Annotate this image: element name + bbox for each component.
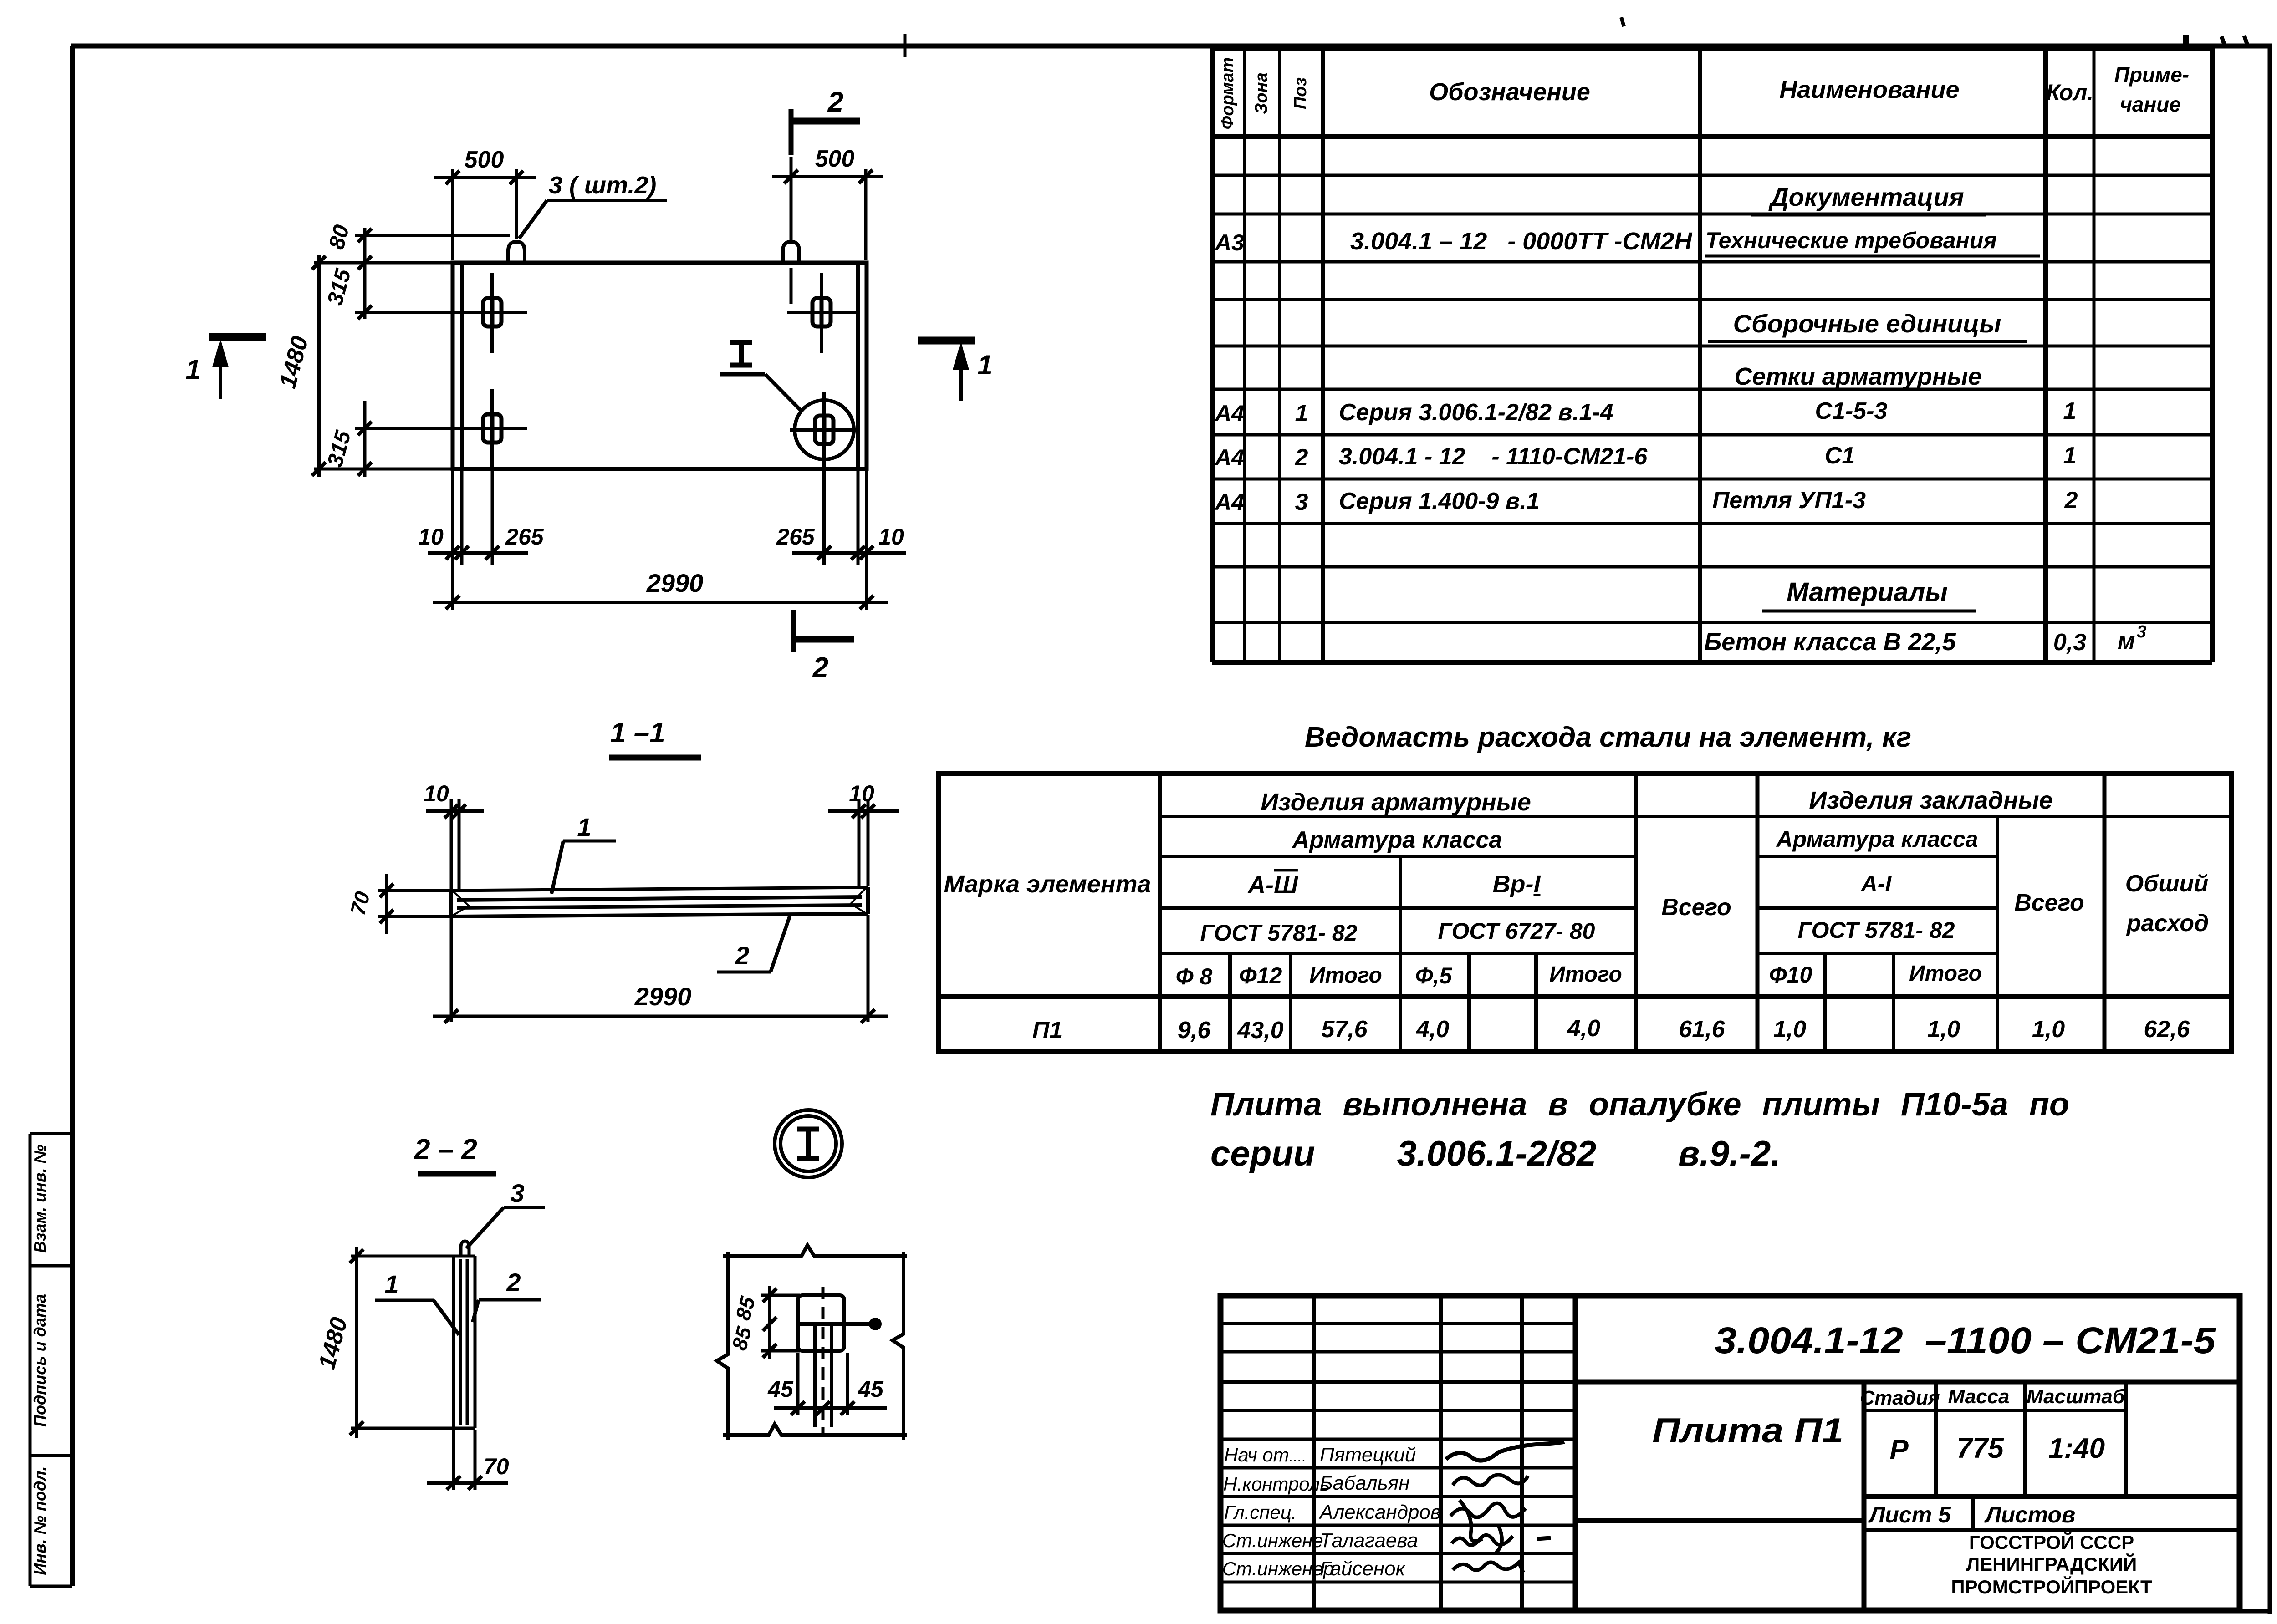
dim 10 right section <box>828 781 899 818</box>
steel table title <box>1305 722 1911 753</box>
svg-text:10: 10 <box>418 524 444 550</box>
svg-text:Вр-I: Вр-I <box>1493 871 1541 898</box>
spec row 3 <box>1214 487 2078 515</box>
svg-text:3: 3 <box>510 1179 524 1207</box>
svg-text:1: 1 <box>2063 398 2077 424</box>
svg-text:П1: П1 <box>1032 1017 1062 1044</box>
title block signatures column labels <box>1222 1444 1334 1579</box>
svg-text:265: 265 <box>505 524 544 550</box>
svg-text:Серия 1.400-9 в.1: Серия 1.400-9 в.1 <box>1339 488 1540 514</box>
svg-text:1: 1 <box>1295 400 1308 427</box>
circled I symbol <box>775 1110 842 1177</box>
label 3 section 2-2 <box>466 1179 545 1248</box>
svg-text:Документация: Документация <box>1768 183 1964 211</box>
svg-text:Гл.спец.: Гл.спец. <box>1224 1502 1297 1523</box>
svg-text:А4: А4 <box>1214 489 1244 515</box>
svg-text:Ф12: Ф12 <box>1239 963 1282 988</box>
svg-text:Сборочные единицы: Сборочные единицы <box>1733 309 2001 338</box>
svg-text:А4: А4 <box>1214 401 1244 426</box>
detail I dims 85 85 <box>727 1286 800 1359</box>
svg-text:Взам. инв. №: Взам. инв. № <box>31 1145 49 1253</box>
svg-text:2: 2 <box>2064 487 2078 514</box>
svg-text:Подпись и дата: Подпись и дата <box>31 1294 49 1427</box>
svg-text:80: 80 <box>325 222 354 252</box>
section 2-2 slab <box>454 1256 475 1428</box>
svg-text:1: 1 <box>384 1270 398 1298</box>
svg-text:85: 85 <box>731 1293 760 1323</box>
svg-text:Изделия арматурные: Изделия арматурные <box>1261 789 1531 816</box>
dim 70 section 1-1 <box>346 874 453 934</box>
svg-text:1480: 1480 <box>275 333 314 391</box>
svg-text:Масштаб: Масштаб <box>2027 1385 2126 1408</box>
label 1 section 2-2 <box>375 1270 459 1335</box>
svg-text:Масса: Масса <box>1948 1385 2009 1408</box>
svg-text:Всего: Всего <box>1661 894 1731 921</box>
svg-text:315: 315 <box>323 266 356 308</box>
dim 500 top-right <box>772 146 883 260</box>
title block name: Плита П1 <box>1575 1411 1864 1521</box>
svg-text:265: 265 <box>776 524 815 550</box>
svg-text:Плита выполнена в опалубке пл: Плита выполнена в опалубке плиты П10-5а … <box>1210 1086 2069 1123</box>
svg-text:1,0: 1,0 <box>1773 1016 1806 1043</box>
svg-text:1: 1 <box>977 350 992 380</box>
svg-text:Арматура класса: Арматура класса <box>1776 826 1978 852</box>
spec row Сборочные единицы <box>1708 309 2027 341</box>
svg-text:Александров: Александров <box>1318 1501 1441 1523</box>
svg-text:1: 1 <box>185 354 200 385</box>
svg-text:62,6: 62,6 <box>2144 1016 2190 1043</box>
svg-text:ГОСТ 6727- 80: ГОСТ 6727- 80 <box>1438 918 1595 944</box>
label 3 (шт.2) with leader <box>519 172 667 239</box>
svg-text:Н.контроль: Н.контроль <box>1223 1473 1330 1495</box>
svg-text:1,0: 1,0 <box>1927 1016 1960 1043</box>
svg-text:Бабальян: Бабальян <box>1320 1472 1410 1494</box>
spec row Бетон <box>1704 622 2146 656</box>
title block organization <box>1951 1531 2152 1598</box>
svg-text:Формат: Формат <box>1218 57 1237 130</box>
svg-text:Технические требования: Технические требования <box>1705 228 1997 253</box>
svg-text:Обозначение: Обозначение <box>1429 78 1590 106</box>
svg-text:2 – 2: 2 – 2 <box>414 1134 477 1165</box>
svg-text:Плита П1: Плита П1 <box>1652 1411 1843 1450</box>
svg-text:Ф10: Ф10 <box>1769 962 1812 988</box>
svg-text:Талагаева: Талагаева <box>1320 1529 1418 1552</box>
svg-text:А-I: А-I <box>1860 871 1892 896</box>
section mark 1 right <box>918 341 993 401</box>
title block outer frame <box>1220 1296 2240 1610</box>
svg-text:Р: Р <box>1889 1434 1909 1466</box>
svg-text:1480: 1480 <box>314 1314 353 1372</box>
left margin stamp boxes <box>30 1134 72 1586</box>
dim 2990 plan <box>433 565 888 610</box>
spec row Материалы <box>1762 577 1976 611</box>
svg-text:0,3: 0,3 <box>2053 629 2086 656</box>
dim 1480 section 2-2 <box>314 1247 455 1438</box>
svg-text:315: 315 <box>323 428 356 469</box>
svg-text:Зона: Зона <box>1252 72 1271 114</box>
svg-text:Всего: Всего <box>2014 890 2084 916</box>
section 1-1 extension lines <box>451 799 868 1022</box>
svg-text:Итого: Итого <box>1309 963 1382 988</box>
svg-text:2: 2 <box>827 87 843 118</box>
svg-text:2990: 2990 <box>634 982 692 1011</box>
svg-text:Петля УП1-3: Петля УП1-3 <box>1712 487 1866 514</box>
section 1-1 slab <box>451 887 868 916</box>
svg-text:1: 1 <box>577 813 591 841</box>
steel table header texts <box>944 787 2209 989</box>
svg-text:Приме-: Приме- <box>2114 63 2189 87</box>
dim 1480 <box>275 255 454 477</box>
label 1 section 1-1 <box>551 813 616 894</box>
svg-text:3.004.1 – 12 - 0000ТТ -СМ2Н: 3.004.1 – 12 - 0000ТТ -СМ2Н <box>1350 228 1692 255</box>
svg-text:43,0: 43,0 <box>1237 1017 1283 1044</box>
svg-text:Бетон класса В 22,5: Бетон класса В 22,5 <box>1704 628 1956 656</box>
svg-text:61,6: 61,6 <box>1679 1016 1725 1043</box>
svg-text:ГОСТ 5781- 82: ГОСТ 5781- 82 <box>1200 920 1358 946</box>
svg-text:70: 70 <box>346 889 375 917</box>
dim 2990 section 1-1 <box>433 982 888 1023</box>
detail I break-line square <box>717 1245 907 1440</box>
svg-text:1: 1 <box>2063 443 2077 469</box>
label 2 section 1-1 <box>717 915 790 972</box>
svg-text:3.004.1-12 –1100 – СМ21-5: 3.004.1-12 –1100 – СМ21-5 <box>1715 1320 2216 1361</box>
detail I embed part <box>798 1287 882 1434</box>
svg-text:10: 10 <box>849 781 874 806</box>
section mark 1 left <box>185 337 266 399</box>
svg-text:Ф 8: Ф 8 <box>1176 964 1213 989</box>
loop stub on top of section 2-2 <box>461 1241 469 1256</box>
svg-text:Поз: Поз <box>1291 77 1310 109</box>
svg-text:Нач от....: Нач от.... <box>1224 1444 1306 1466</box>
spec row 1 <box>1214 398 2076 427</box>
svg-text:Наименование: Наименование <box>1779 76 1959 103</box>
svg-text:70: 70 <box>484 1454 509 1479</box>
svg-text:45: 45 <box>767 1376 794 1402</box>
signature scribbles <box>1446 1442 1564 1573</box>
svg-text:500: 500 <box>465 147 504 173</box>
svg-text:Листов: Листов <box>1984 1502 2075 1527</box>
svg-text:Серия 3.006.1-2/82 в.1-4: Серия 3.006.1-2/82 в.1-4 <box>1339 399 1613 426</box>
steel table grid <box>939 774 2231 1052</box>
svg-text:3: 3 <box>2137 622 2146 641</box>
spec row A3 <box>1214 228 2040 256</box>
section 2 cut line through loop2 <box>790 157 793 304</box>
svg-text:2: 2 <box>735 941 749 970</box>
detail I dims 45 45 <box>767 1353 887 1415</box>
svg-text:Гайсенок: Гайсенок <box>1320 1558 1406 1580</box>
bottom dims 10,265 left <box>418 469 544 565</box>
svg-text:3: 3 <box>1295 489 1308 515</box>
lifting loop 3 left <box>508 242 525 265</box>
svg-text:Ведомасть расхода стали на эле: Ведомасть расхода стали на элемент, кг <box>1305 722 1911 753</box>
svg-text:Лист 5: Лист 5 <box>1868 1502 1951 1527</box>
spec row 2 <box>1214 443 2076 471</box>
title block sheet row <box>1864 1497 2240 1530</box>
label 2 section 2-2 <box>473 1268 541 1322</box>
lifting loop 3 right <box>783 242 799 265</box>
svg-text:1 –1: 1 –1 <box>610 717 665 748</box>
section mark 2 bottom <box>794 610 854 683</box>
svg-text:Материалы: Материалы <box>1787 577 1948 607</box>
svg-text:Инв. № подл.: Инв. № подл. <box>31 1466 49 1575</box>
embed plate upper-right <box>787 273 858 353</box>
svg-text:4,0: 4,0 <box>1416 1016 1449 1043</box>
dim 70 section 2-2 <box>427 1430 509 1490</box>
svg-text:Марка элемента: Марка элемента <box>944 871 1151 898</box>
svg-text:Стадия: Стадия <box>1860 1387 1940 1409</box>
svg-text:2: 2 <box>1295 444 1308 471</box>
dim 80 left <box>325 222 510 319</box>
svg-text:2990: 2990 <box>646 569 704 597</box>
spec row Документация <box>1751 183 1986 215</box>
svg-text:А4: А4 <box>1214 445 1244 470</box>
section 1-1 title <box>609 717 701 758</box>
svg-text:Пятецкий: Пятецкий <box>1320 1444 1416 1466</box>
plate outline plan <box>453 263 867 469</box>
title block signature names <box>1318 1444 1441 1580</box>
dim 500 top-left <box>434 147 536 260</box>
svg-text:10: 10 <box>878 524 904 550</box>
dim 315 lower <box>323 401 460 477</box>
svg-text:Арматура класса: Арматура класса <box>1292 827 1502 853</box>
svg-text:45: 45 <box>858 1376 884 1402</box>
title block name grid <box>1220 1296 1575 1610</box>
svg-text:Ф,5: Ф,5 <box>1415 963 1453 988</box>
svg-text:Ст.инжене.: Ст.инжене. <box>1222 1530 1328 1551</box>
svg-text:85: 85 <box>727 1324 756 1353</box>
svg-text:А3: А3 <box>1214 230 1244 255</box>
svg-text:9,6: 9,6 <box>1178 1017 1211 1044</box>
embed plate upper-left <box>458 273 527 353</box>
svg-text:ГОССТРОЙ СССР: ГОССТРОЙ СССР <box>1969 1531 2134 1553</box>
svg-text:ПРОМСТРОЙПРОЕКТ: ПРОМСТРОЙПРОЕКТ <box>1951 1576 2152 1598</box>
svg-text:Изделия закладные: Изделия закладные <box>1809 787 2052 814</box>
svg-text:1:40: 1:40 <box>2048 1433 2105 1464</box>
svg-text:500: 500 <box>815 146 855 172</box>
svg-text:серии 3.006.1-2/82 в.9.-2.: серии 3.006.1-2/82 в.9.-2. <box>1210 1133 1781 1173</box>
fold tick marks on top frame <box>905 17 2248 57</box>
svg-text:3.004.1 - 12 - 1110-СМ21-6: 3.004.1 - 12 - 1110-СМ21-6 <box>1339 443 1648 470</box>
spec row Сетки арматурные <box>1734 363 1981 390</box>
title block designation <box>1715 1320 2216 1361</box>
svg-text:1,0: 1,0 <box>2032 1016 2065 1043</box>
svg-text:Обший: Обший <box>2125 871 2208 897</box>
spec table grid <box>1212 48 2212 662</box>
spec header texts <box>1218 57 2189 130</box>
svg-text:Сетки арматурные: Сетки арматурные <box>1734 363 1981 390</box>
svg-text:ЛЕНИНГРАДСКИЙ: ЛЕНИНГРАДСКИЙ <box>1966 1553 2137 1575</box>
svg-text:С1: С1 <box>1825 443 1855 469</box>
svg-text:2: 2 <box>812 652 828 683</box>
note line 1 <box>1210 1086 2069 1173</box>
svg-text:Итого: Итого <box>1909 962 1982 986</box>
svg-text:10: 10 <box>424 781 449 806</box>
dim 315 upper <box>323 266 460 319</box>
svg-text:ГОСТ 5781- 82: ГОСТ 5781- 82 <box>1798 917 1955 943</box>
svg-text:м: м <box>2118 628 2135 654</box>
steel table data row <box>1032 1015 2190 1044</box>
svg-text:4,0: 4,0 <box>1567 1015 1600 1042</box>
title block stage/mass/scale <box>1860 1382 2126 1497</box>
svg-text:А-Ш: А-Ш <box>1247 871 1298 899</box>
svg-text:Кол.: Кол. <box>2046 80 2093 105</box>
bottom dims 265,10 right <box>776 471 906 565</box>
embed plate lower-left <box>458 389 527 467</box>
svg-text:775: 775 <box>1956 1433 2004 1464</box>
embed plate lower-right with detail circle <box>790 392 858 565</box>
svg-text:Ст.инженер: Ст.инженер <box>1222 1558 1334 1579</box>
svg-text:3 ( шт.2): 3 ( шт.2) <box>549 172 656 199</box>
svg-text:чание: чание <box>2120 92 2181 116</box>
section 2-2 title <box>414 1134 496 1174</box>
svg-text:Итого: Итого <box>1549 962 1622 987</box>
section mark 2 top <box>789 87 860 155</box>
dim 10 left section <box>424 781 484 818</box>
svg-text:57,6: 57,6 <box>1321 1016 1368 1043</box>
svg-text:расход: расход <box>2126 910 2209 937</box>
detail I callout label <box>720 342 801 410</box>
svg-text:С1-5-3: С1-5-3 <box>1815 398 1888 424</box>
svg-text:2: 2 <box>506 1268 521 1297</box>
